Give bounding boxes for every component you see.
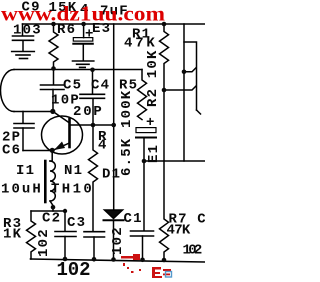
- junction R1/top-rail: [162, 22, 167, 27]
- capacitor C5 10P: [41, 69, 65, 112]
- wire base y125: [71, 124, 114, 126]
- svg-text:47K: 47K: [124, 36, 156, 52]
- svg-text:D1: D1: [102, 167, 121, 183]
- junction R6/top-rail: [51, 22, 56, 27]
- red streak over ground rail: [121, 256, 135, 259]
- resistor R6: [49, 24, 58, 69]
- junction C2 top: [63, 209, 67, 213]
- junction R7/ground-rail: [162, 258, 167, 263]
- diode D1 symbol: [104, 210, 124, 260]
- wire mid rail y69.5: [14, 69, 142, 71]
- svg-text:C3: C3: [67, 215, 86, 231]
- svg-text:10uH: 10uH: [1, 182, 42, 198]
- junction E1/C1 node: [142, 159, 147, 164]
- ground for E3: [73, 61, 94, 67]
- svg-text:R2 10K: R2 10K: [145, 49, 161, 107]
- svg-text:I1: I1: [16, 163, 35, 179]
- svg-text:www.dz1uu.com: www.dz1uu.com: [1, 2, 166, 26]
- inductor N1 core bar: [44, 161, 47, 202]
- node collector: [50, 109, 55, 114]
- junction base/D1 branch: [111, 123, 116, 128]
- wire divider to connector y90: [164, 86, 196, 90]
- svg-text:TH10: TH10: [51, 182, 93, 198]
- junction rail/contact: [182, 70, 187, 75]
- svg-text:102: 102: [36, 228, 52, 257]
- svg-text:C1: C1: [124, 211, 143, 227]
- svg-text:C6: C6: [2, 143, 21, 159]
- junction D1/ground-rail: [111, 257, 116, 262]
- red specks: [123, 263, 125, 266]
- junction R6/C5 mid-rail: [51, 66, 56, 71]
- wire right rail x184: [183, 24, 185, 161]
- capacitor C1 102: [131, 161, 154, 260]
- junction C2/ground-rail: [63, 257, 68, 262]
- ground for C9: [12, 52, 35, 59]
- red stamp marks: [121, 254, 171, 278]
- wire collector horizontal y111.5: [14, 111, 53, 113]
- svg-text:C5: C5: [63, 78, 82, 94]
- red stamp glyph: [152, 267, 155, 278]
- resistor R1 47K: [160, 24, 169, 90]
- resistor R5 100K: [138, 70, 147, 120]
- wire rail contact stub y71.8: [184, 68, 196, 72]
- wire bottom-mid y211: [31, 210, 65, 212]
- junction C3/ground-rail: [92, 257, 97, 262]
- diode D1 branch: [113, 24, 115, 210]
- junction base/R4: [91, 123, 96, 128]
- resistor R7 47K: [160, 161, 169, 260]
- wire R1R2 node down: [163, 90, 165, 161]
- connector J1 bracket: [184, 42, 201, 114]
- capacitor C6 2P: [14, 112, 34, 151]
- transistor emitter lead: [54, 143, 70, 150]
- svg-text:102: 102: [57, 259, 91, 281]
- capacitor C2 102: [55, 211, 76, 259]
- capacitor C4 20P: [80, 70, 105, 125]
- capacitor E3 electrolytic: [73, 24, 93, 60]
- junction C1/ground-rail: [140, 258, 145, 263]
- transistor collector lead: [53, 111, 70, 123]
- svg-text:6.5K: 6.5K: [119, 138, 135, 176]
- wire emitter y150.5: [23, 150, 52, 152]
- resistor R3 1K: [27, 211, 36, 259]
- blue stamp mark: [166, 272, 172, 278]
- junction N1 bottom: [51, 205, 56, 210]
- svg-text:E1: E1: [146, 144, 162, 163]
- svg-text:20P: 20P: [73, 104, 103, 120]
- transistor Q1 circle: [42, 116, 83, 154]
- svg-text:4: 4: [98, 138, 108, 154]
- inductor N1 coil: [50, 151, 55, 212]
- svg-text:102: 102: [110, 226, 126, 255]
- wire left arc loop: [0, 70, 14, 112]
- svg-text:C4: C4: [91, 78, 110, 94]
- svg-text:N1: N1: [64, 163, 83, 179]
- junction C4/mid-rail: [90, 68, 95, 73]
- junction R1/R2 divider: [162, 88, 167, 93]
- wire E1 node line y161: [144, 160, 205, 162]
- svg-text:+: +: [146, 115, 156, 131]
- capacitor C9 103: [13, 24, 34, 51]
- capacitor E1 electrolytic: [136, 128, 156, 161]
- resistor R4 6.5K: [89, 125, 98, 231]
- svg-text:1K: 1K: [3, 227, 22, 243]
- wire bottom rail: [31, 259, 206, 262]
- emitter arrow: [54, 142, 65, 151]
- svg-text:102: 102: [183, 243, 204, 259]
- node emitter: [50, 148, 55, 153]
- transistor Q1 base bar: [68, 119, 71, 147]
- capacitor C3: [84, 232, 105, 260]
- svg-text:C2: C2: [42, 211, 61, 227]
- svg-text:47K: 47K: [167, 223, 192, 239]
- junction E3/top-rail: [81, 22, 86, 27]
- svg-text:100K: 100K: [119, 90, 135, 128]
- wire top rail y24: [23, 23, 206, 25]
